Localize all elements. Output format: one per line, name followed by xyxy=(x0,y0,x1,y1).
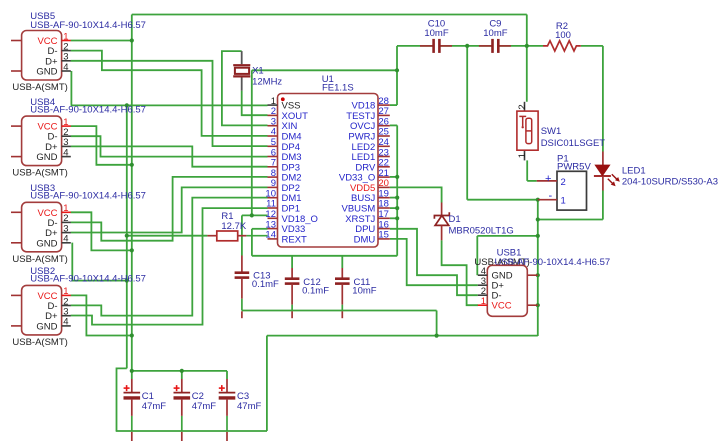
wire USB4 VCC xyxy=(71,126,132,165)
svg-text:USB-A(SMT): USB-A(SMT) xyxy=(12,254,67,265)
junction xyxy=(395,68,399,72)
pin 4 DM4 xyxy=(268,135,278,137)
svg-text:GND: GND xyxy=(36,152,57,163)
pin 12 VD18_O xyxy=(268,217,278,219)
LED LED1 204-10SURD/S530-A3 xyxy=(594,152,718,191)
wire cap row VD18 segment xyxy=(397,45,434,47)
svg-text:4: 4 xyxy=(63,234,68,245)
svg-text:47mF: 47mF xyxy=(192,401,216,412)
svg-text:SW1: SW1 xyxy=(541,126,562,137)
wire pin16 DPU to USB1 D- xyxy=(390,229,478,295)
junction xyxy=(125,234,129,238)
wire C11 top drop xyxy=(341,256,343,268)
wire crystal top lead xyxy=(241,51,243,64)
pin 14 REXT xyxy=(268,238,278,240)
svg-text:GND: GND xyxy=(36,67,57,78)
wire USB1 GND horizontal xyxy=(477,235,538,237)
pin 9 DP2 xyxy=(268,186,278,188)
wire R2 right xyxy=(581,45,603,47)
wire crystal top to pin3 XIN xyxy=(222,51,268,125)
wire pin13 elbow xyxy=(251,229,253,256)
svg-text:4: 4 xyxy=(63,317,68,328)
wire USB3-GND to riser xyxy=(72,243,127,281)
diode D1 MBR0520LT1G xyxy=(434,203,513,241)
svg-text:FE1.1S: FE1.1S xyxy=(322,83,354,94)
wire VCC top horizontal xyxy=(132,14,527,16)
wire pin21 tee xyxy=(390,176,397,178)
wire C13-C12-C11 ground rail xyxy=(242,310,437,312)
svg-text:10mF: 10mF xyxy=(352,286,376,297)
wire crystal bottom lead xyxy=(241,77,243,91)
wire USB1 GND elbow xyxy=(476,236,478,275)
pin 27 TESTJ xyxy=(378,114,390,116)
junction xyxy=(465,44,469,48)
svg-text:USB-AF-90-10X14.4-H6.57: USB-AF-90-10X14.4-H6.57 xyxy=(30,274,146,285)
svg-text:USB-AF-90-10X14.4-H6.57: USB-AF-90-10X14.4-H6.57 xyxy=(30,191,146,202)
wire P1 pin1 horizontal xyxy=(467,199,538,201)
wire VD18_O horizontal y70 xyxy=(252,69,397,71)
wire USB2 D+ to pin11 DP1 xyxy=(71,208,268,325)
wire ground loop right riser xyxy=(266,336,268,431)
wire USB5 D- to pin4 DM4 xyxy=(71,51,268,136)
USB connector USB1 xyxy=(474,247,610,316)
svg-text:USB-A(SMT): USB-A(SMT) xyxy=(12,82,67,93)
pin 5 DP4 xyxy=(268,145,278,147)
junction xyxy=(536,198,540,202)
capacitor C2 47mF polarized xyxy=(174,379,217,441)
wire pin20 VDD5 to D1 xyxy=(390,187,442,202)
svg-text:USB-AF-90-10X14.4-H6.57: USB-AF-90-10X14.4-H6.57 xyxy=(30,20,146,31)
wire LED cathode drop xyxy=(602,191,604,220)
pin 1 VSS xyxy=(268,104,278,106)
svg-text:0.1mF: 0.1mF xyxy=(302,286,329,297)
svg-text:GND: GND xyxy=(36,238,57,249)
wire LED cathode return xyxy=(538,219,603,221)
svg-text:+: + xyxy=(545,173,551,185)
pin 11 DP1 xyxy=(268,207,278,209)
pin 10 DM1 xyxy=(268,197,278,199)
pin 7 DP3 xyxy=(268,166,278,168)
wire VD18_O riser xyxy=(251,70,253,215)
wire pin18 tee xyxy=(390,207,397,209)
wire pin17 tee xyxy=(390,217,397,219)
pin 3 XIN xyxy=(268,125,278,127)
pin 22 DRV xyxy=(378,166,390,168)
junction xyxy=(395,175,399,179)
pin 13 VD33 xyxy=(268,228,278,230)
pin 25 PWRJ xyxy=(378,135,390,137)
wire VSS horizontal (net GND) xyxy=(71,104,268,106)
wire USB4 D- to pin6 DM3 xyxy=(71,136,268,156)
capacitor C12 0.1mF xyxy=(285,268,300,318)
wire pin13 VD33 xyxy=(252,228,268,230)
svg-text:47mF: 47mF xyxy=(142,401,166,412)
pin 28 VD18 xyxy=(378,104,390,106)
wire pin12 VD18_O xyxy=(242,214,268,216)
wire pin28 VD18 xyxy=(390,104,397,106)
svg-text:USB-A(SMT): USB-A(SMT) xyxy=(12,168,67,179)
wire ground horizontal y335 xyxy=(267,335,538,337)
wire ground link x436 xyxy=(436,311,438,336)
pin 20 VDD5 xyxy=(378,186,390,188)
pin 6 DM3 xyxy=(268,156,278,158)
wire crystal bottom to pin2 XOUT xyxy=(242,91,268,115)
wire R1 left to GND riser xyxy=(127,235,208,237)
junction xyxy=(130,248,134,252)
junction xyxy=(395,206,399,210)
svg-text:2: 2 xyxy=(517,104,528,109)
wire USB5 D+ to pin5 DP4 xyxy=(71,61,268,146)
svg-text:10mF: 10mF xyxy=(424,28,448,39)
pin 18 VBUSM xyxy=(378,207,390,209)
svg-text:1: 1 xyxy=(561,196,566,207)
svg-text:47mF: 47mF xyxy=(237,401,261,412)
crystal X1 12MHz xyxy=(233,65,282,87)
wire SW1 bottom to P1+ xyxy=(526,160,528,181)
junction xyxy=(125,279,129,283)
svg-text:REXT: REXT xyxy=(282,234,308,245)
junction xyxy=(395,196,399,200)
svg-text:D1: D1 xyxy=(449,214,461,225)
pin 24 LED2 xyxy=(378,145,390,147)
svg-text:DMU: DMU xyxy=(354,234,376,245)
svg-text:VCC: VCC xyxy=(492,301,512,312)
svg-text:MBR0520LT1G: MBR0520LT1G xyxy=(449,226,514,237)
wire VD33 horizontal under chip xyxy=(252,255,397,257)
junction xyxy=(536,303,540,307)
wire VCC riser xyxy=(131,15,133,380)
connector P1 PWR5V xyxy=(537,154,592,211)
wire pin19 tee xyxy=(390,197,397,199)
svg-text:USB-A(SMT): USB-A(SMT) xyxy=(12,337,67,348)
svg-text:2: 2 xyxy=(561,177,566,188)
pin 8 DM2 xyxy=(268,176,278,178)
junction xyxy=(130,163,134,167)
wire USB2 VCC xyxy=(71,295,132,335)
junction xyxy=(525,44,529,48)
wire cap row GND segment (C10-C9) xyxy=(439,45,492,47)
junction xyxy=(250,213,254,217)
pin 2 XOUT xyxy=(268,114,278,116)
svg-text:-: - xyxy=(549,190,553,202)
svg-text:USB-AF-90-10X14.4-H6.57: USB-AF-90-10X14.4-H6.57 xyxy=(30,104,146,115)
junction xyxy=(130,333,134,337)
wire D1 anode to USB1 VCC xyxy=(442,240,478,305)
wire C13 top drop xyxy=(241,215,243,255)
svg-text:4: 4 xyxy=(63,62,68,73)
capacitor C13 0.1mF xyxy=(235,256,250,319)
svg-text:1: 1 xyxy=(481,296,486,307)
USB connector USB4 xyxy=(11,97,146,179)
svg-text:DSIC01LSGET: DSIC01LSGET xyxy=(541,138,606,149)
junction xyxy=(180,369,184,373)
wire P1 pin2 horizontal xyxy=(527,180,537,182)
svg-text:0.1mF: 0.1mF xyxy=(252,279,279,290)
wire pin26 OVCJ xyxy=(390,124,397,126)
wire VD33 riser xyxy=(396,125,398,255)
junction xyxy=(125,103,129,107)
wire bottom ground rail xyxy=(116,430,267,432)
svg-text:X1: X1 xyxy=(252,65,264,76)
wire GND jog to bottom rail xyxy=(117,368,127,431)
pin 23 LED1 xyxy=(378,156,390,158)
wire pin15 DMU to USB1 D+ xyxy=(390,239,478,285)
resistor R2 100 xyxy=(543,21,581,51)
switch SW1 DSIC01LSGET xyxy=(517,102,605,161)
svg-text:GND: GND xyxy=(36,321,57,332)
wire USB3 D+ to pin9 DP2 xyxy=(71,187,268,232)
wire VD18 riser xyxy=(396,46,398,105)
wire C2 top drop xyxy=(181,371,183,379)
pin 17 XRSTJ xyxy=(378,217,390,219)
wire USB2 D- to pin10 DM1 xyxy=(71,198,268,316)
wire USB5-GND drop xyxy=(70,71,72,105)
junction xyxy=(536,273,540,277)
svg-text:LED1: LED1 xyxy=(622,166,646,177)
svg-text:100: 100 xyxy=(555,30,571,41)
junction xyxy=(435,334,439,338)
junction xyxy=(536,217,540,221)
USB connector USB2 xyxy=(11,266,146,348)
wire right GND riser (P1- to rail) xyxy=(537,200,539,336)
svg-text:4: 4 xyxy=(63,147,68,158)
svg-text:10mF: 10mF xyxy=(483,28,507,39)
capacitor C9 10mF xyxy=(479,19,511,53)
USB connector USB3 xyxy=(11,183,146,265)
svg-text:12MHz: 12MHz xyxy=(252,76,282,87)
wire USB4 D+ to pin7 DP3 xyxy=(71,146,268,166)
wire USB5 VCC xyxy=(71,40,132,42)
pin 26 OVCJ xyxy=(378,125,390,127)
wire C3 top drop xyxy=(226,371,228,379)
svg-text:204-10SURD/S530-A3: 204-10SURD/S530-A3 xyxy=(622,177,718,188)
wire top drop to SW1 xyxy=(526,15,528,102)
pin 21 VD33_O xyxy=(378,176,390,178)
USB connector USB5 xyxy=(11,11,146,93)
junction xyxy=(130,369,134,373)
wire C12 top drop xyxy=(291,256,293,268)
junction xyxy=(536,234,540,238)
resistor R1 12.7K xyxy=(207,211,267,241)
junction xyxy=(395,216,399,220)
svg-text:1: 1 xyxy=(517,153,528,158)
wire USB3 D- to pin8 DM2 xyxy=(71,177,268,241)
junction xyxy=(130,38,134,42)
wire GND riser xyxy=(126,105,128,368)
capacitor C3 47mF polarized xyxy=(219,379,262,441)
wire USB3 VCC xyxy=(71,212,132,250)
pin 15 DMU xyxy=(378,238,390,240)
wire C2/C3 top branch xyxy=(132,370,227,372)
pin 16 DPU xyxy=(378,228,390,230)
IC U1 FE1.1S USB hub controller xyxy=(265,74,389,247)
capacitor C10 10mF xyxy=(420,19,452,53)
wire C9 to R2 xyxy=(498,45,543,47)
pin 19 BUSJ xyxy=(378,197,390,199)
wire LED anode riser xyxy=(602,46,604,152)
wire P1- riser (GND from cap row) xyxy=(466,46,468,200)
capacitor C1 47mF polarized xyxy=(124,379,167,441)
capacitor C11 10mF xyxy=(335,268,350,318)
svg-text:15: 15 xyxy=(378,230,389,241)
